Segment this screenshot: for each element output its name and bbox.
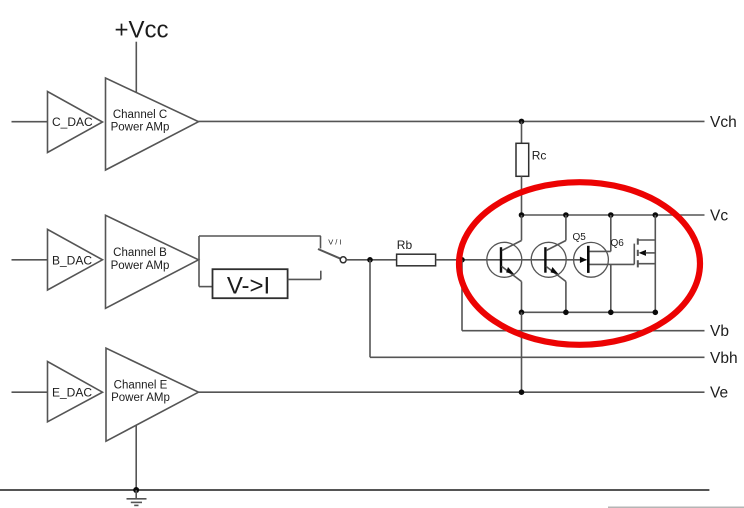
- node junction Vc rail 4: [653, 212, 659, 218]
- svg-text:Q6: Q6: [611, 238, 625, 249]
- wire Vch output: [199, 120, 705, 122]
- svg-text:+Vcc: +Vcc: [115, 17, 169, 44]
- resistor Rb: [397, 254, 436, 266]
- transistor Q5: [574, 215, 635, 312]
- node junction bottom rail 1: [519, 310, 525, 316]
- converter V->I box: [213, 269, 288, 298]
- wire switch lower contact stub: [320, 271, 322, 280]
- wire input C row: [12, 121, 48, 123]
- wire base node down to Vb: [461, 260, 463, 331]
- wire amp E to ground: [135, 425, 137, 490]
- C_DAC buffer: [48, 92, 103, 153]
- svg-text:Power AMp: Power AMp: [111, 392, 170, 404]
- B_DAC buffer: [48, 229, 103, 290]
- svg-text:Vch: Vch: [710, 114, 737, 131]
- wire Vch to Rc: [521, 121, 523, 143]
- wire V->I box output: [288, 278, 321, 280]
- node junction Vbh tap: [367, 257, 373, 263]
- svg-text:Rc: Rc: [532, 149, 547, 163]
- annotation red ellipse: [459, 182, 700, 345]
- wire input B row: [12, 259, 48, 261]
- node junction Vc rail 1: [519, 212, 525, 218]
- wire V->I box input: [199, 286, 213, 288]
- node junction Ve: [519, 389, 525, 395]
- wire switch upper contact stub: [320, 236, 322, 249]
- node junction ground: [133, 487, 139, 493]
- transistor Q4 (middle BJT): [531, 215, 566, 312]
- svg-text:Channel B: Channel B: [113, 247, 167, 259]
- transistor Q3 (left BJT): [487, 215, 522, 312]
- node junction bottom rail 4: [653, 310, 659, 316]
- svg-text:Vbh: Vbh: [710, 350, 738, 367]
- wire +Vcc to Channel C amp: [135, 42, 137, 93]
- node junction Vc rail 2: [563, 212, 569, 218]
- svg-text:V / I: V / I: [328, 238, 341, 247]
- resistor Rc: [516, 143, 529, 176]
- svg-text:Power AMp: Power AMp: [111, 260, 170, 272]
- svg-text:B_DAC: B_DAC: [52, 253, 92, 267]
- wire Vbh vertical: [369, 260, 371, 358]
- node junction Vc rail 3: [608, 212, 614, 218]
- wire Ve output: [199, 391, 705, 393]
- svg-text:Q5: Q5: [573, 232, 587, 243]
- wire Vc rail: [522, 214, 705, 216]
- svg-text:Vb: Vb: [710, 323, 729, 340]
- wire input E row: [12, 391, 48, 393]
- decorative bottom-right edge artifact: [608, 506, 744, 508]
- svg-text:Power AMp: Power AMp: [111, 122, 170, 134]
- svg-text:E_DAC: E_DAC: [52, 386, 92, 400]
- svg-text:Rb: Rb: [397, 238, 413, 252]
- svg-text:Vc: Vc: [710, 208, 728, 225]
- node junction bottom rail 2: [563, 310, 569, 316]
- wire switch pole to Rb: [346, 259, 396, 261]
- ground: [127, 490, 147, 505]
- svg-text:Channel E: Channel E: [114, 379, 168, 391]
- wire Vb line: [462, 330, 705, 332]
- node junction Vb tap: [459, 257, 465, 263]
- svg-text:Ve: Ve: [710, 385, 728, 402]
- wire feedback top horizontal: [199, 235, 321, 237]
- wire cluster bottom rail: [522, 311, 656, 313]
- node junction bottom rail 3: [608, 310, 614, 316]
- switch V/I blade: [318, 249, 341, 259]
- node junction Vch/Rc: [519, 119, 525, 125]
- wire Vbh line: [370, 356, 705, 358]
- E_DAC buffer: [48, 362, 103, 422]
- wire Rb to transistor bases: [436, 259, 587, 261]
- svg-text:C_DAC: C_DAC: [52, 115, 93, 129]
- op-amp Channel B Power AMp: [106, 215, 199, 308]
- svg-text:V->I: V->I: [227, 273, 270, 300]
- wire feedback vertical at amp B output: [198, 236, 200, 287]
- op-amp Channel E Power AMp: [106, 348, 199, 441]
- transistor Q6 (MOSFET): [634, 215, 655, 312]
- op-amp Channel C Power AMp: [106, 78, 199, 170]
- wire bottom ground rail: [0, 489, 709, 491]
- wire emitter node down to Ve: [521, 312, 523, 392]
- switch pole contact: [340, 257, 346, 263]
- wire Rc to Vc rail: [521, 176, 523, 215]
- svg-text:Channel C: Channel C: [113, 109, 167, 121]
